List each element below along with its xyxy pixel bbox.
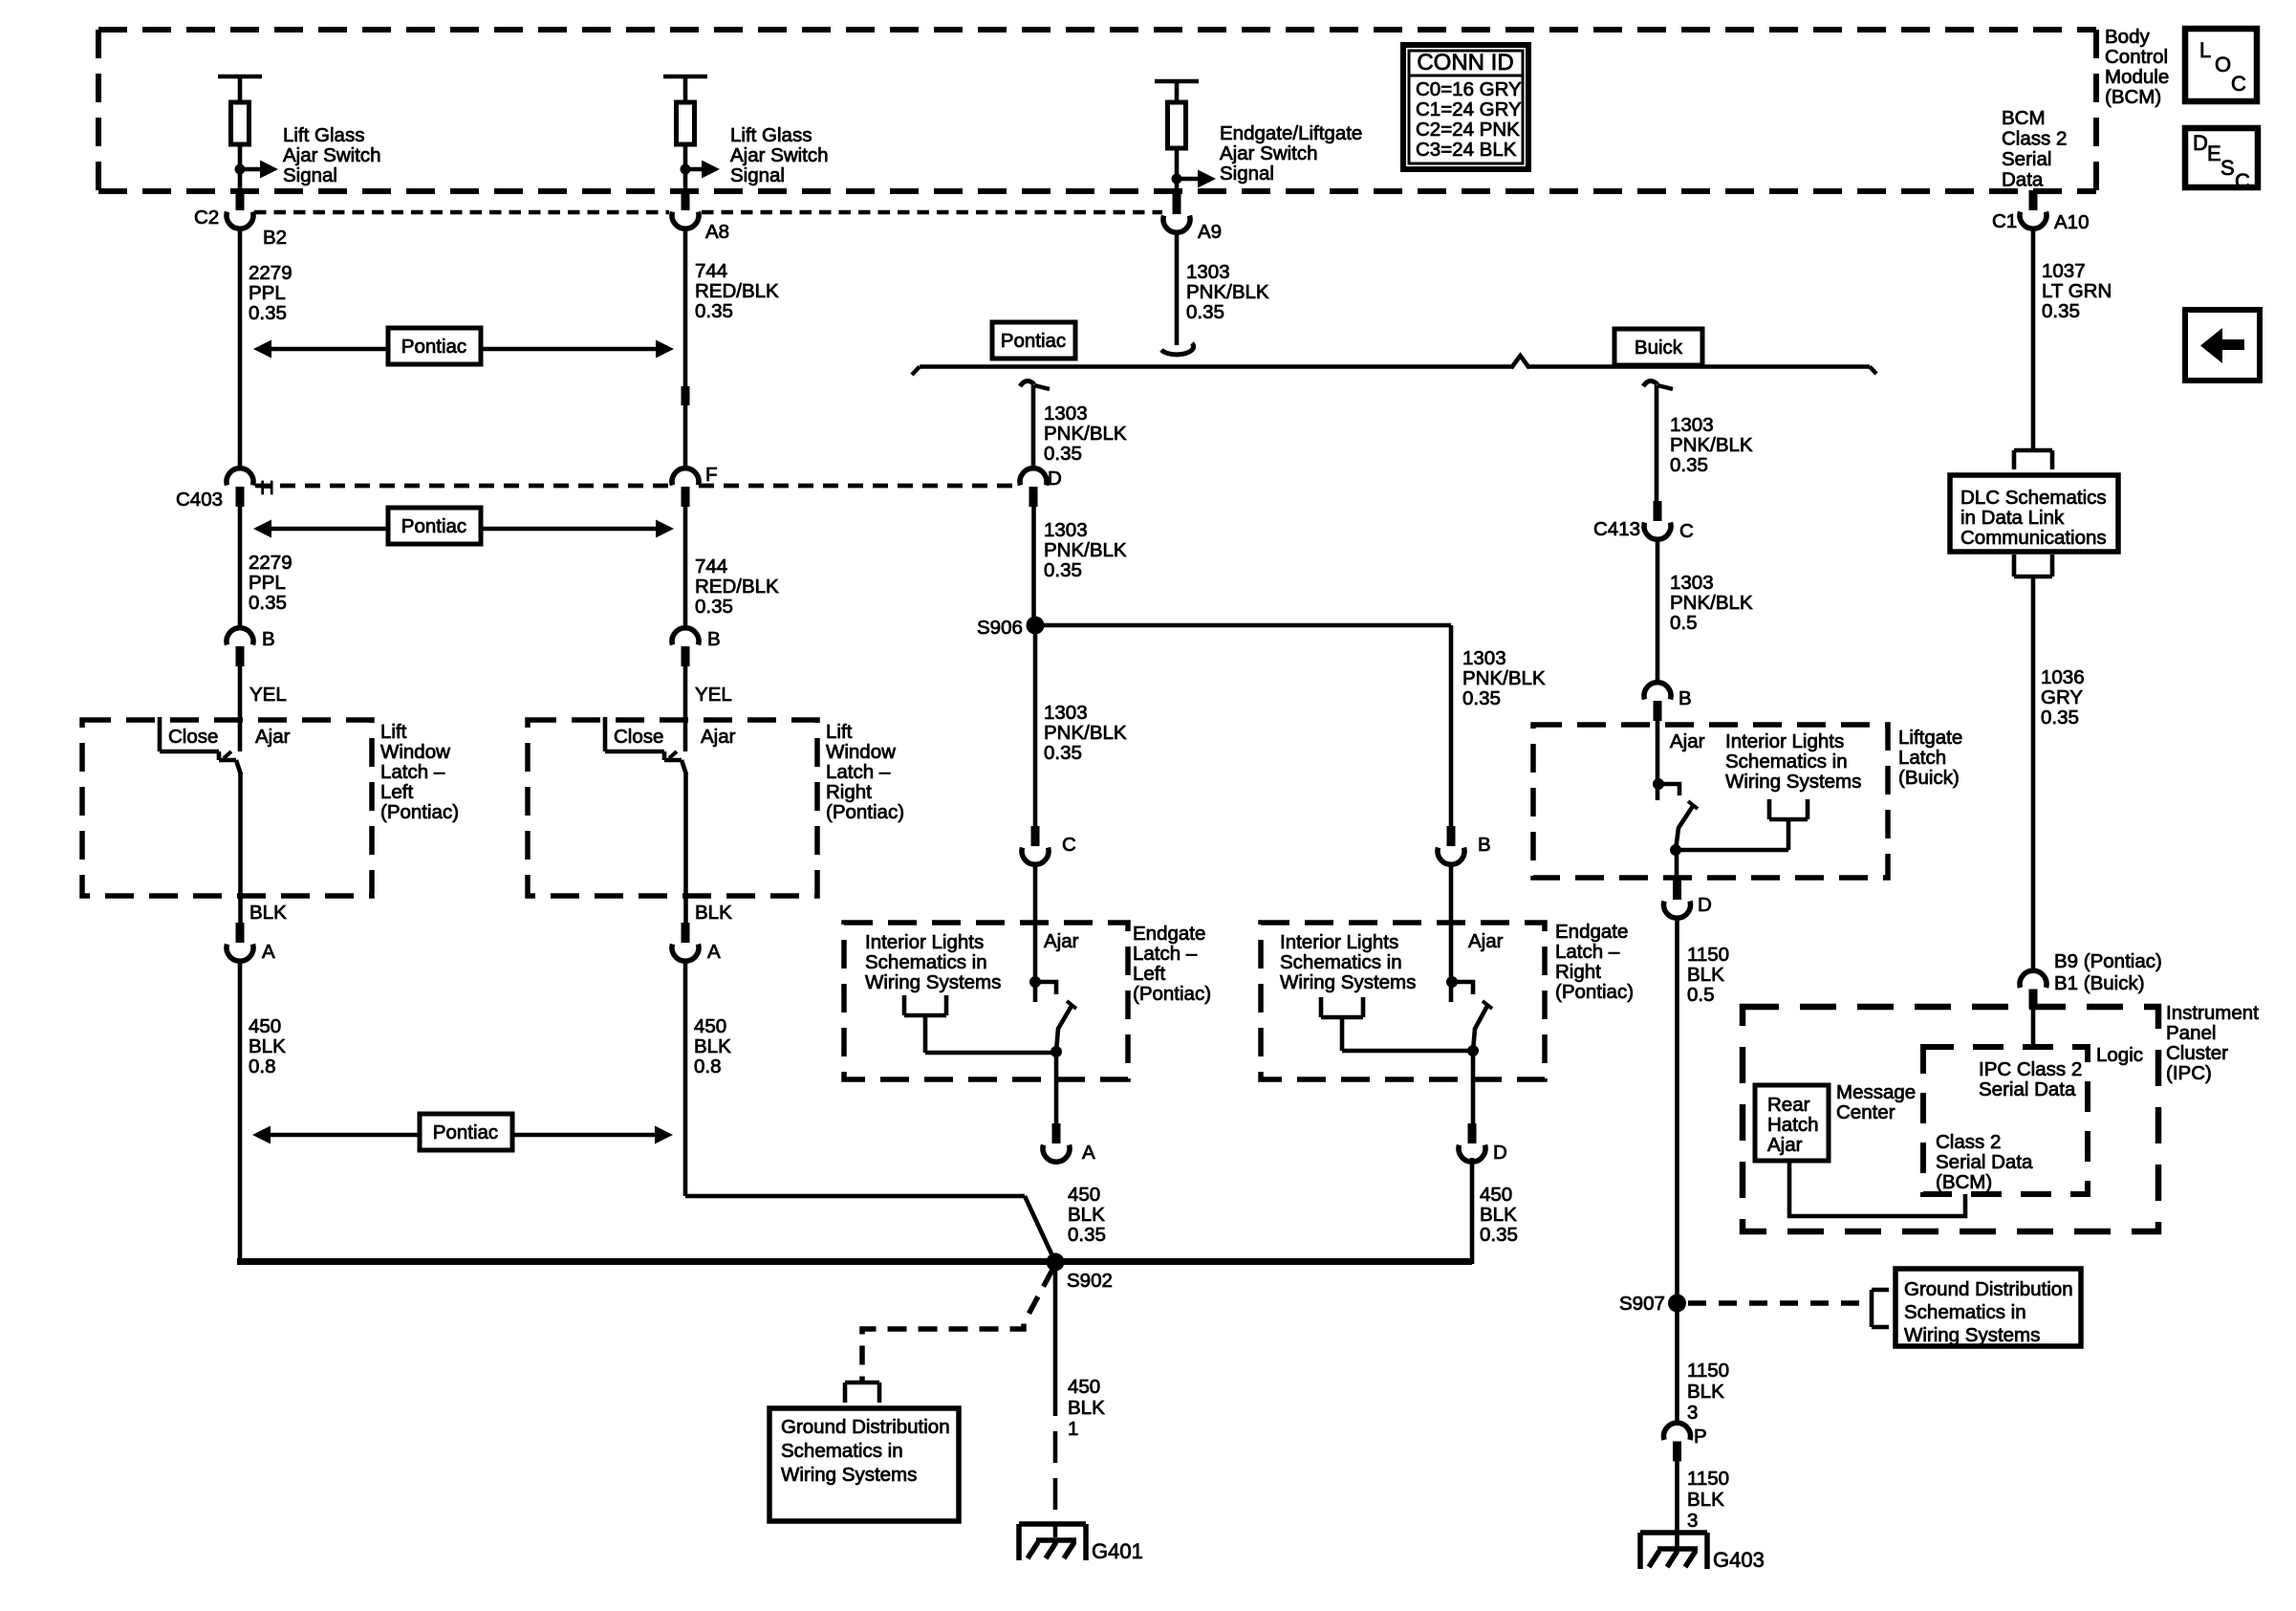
svg-text:G403: G403: [1713, 1548, 1765, 1572]
svg-text:C1: C1: [1992, 210, 2017, 232]
svg-text:BLK: BLK: [1687, 964, 1724, 986]
label Lift Glass Ajar Switch Signal (right): [730, 124, 829, 186]
svg-text:C: C: [2231, 72, 2246, 96]
label C413: [1593, 518, 1640, 540]
endgate left interior lights bracket: [904, 995, 1056, 1053]
svg-text:2279: 2279: [249, 262, 292, 284]
connector pin D (endgate right): [1459, 1123, 1485, 1162]
svg-text:P: P: [1694, 1426, 1707, 1448]
label 450 BLK 0.8 (left): [249, 1015, 286, 1078]
label 1303 PNK/BLK 0.5: [1670, 572, 1753, 634]
ground bus wire into S902: [237, 1258, 1472, 1265]
svg-text:C2=24 PNK: C2=24 PNK: [1416, 119, 1520, 141]
svg-text:RED/BLK: RED/BLK: [695, 576, 779, 598]
splice S906: [1027, 617, 1045, 635]
svg-text:1150: 1150: [1687, 944, 1729, 966]
svg-text:CONN ID: CONN ID: [1417, 50, 1513, 76]
connector plane line C2/A8/A9 (dotted): [254, 210, 1162, 215]
svg-text:0.8: 0.8: [249, 1056, 276, 1078]
DESC reference box: [2185, 128, 2258, 193]
Lift Window Latch - Left dashed box: [82, 720, 372, 896]
svg-text:O: O: [2215, 53, 2231, 76]
svg-text:Pontiac: Pontiac: [401, 515, 466, 537]
svg-text:Ground Distribution: Ground Distribution: [1904, 1278, 2073, 1300]
svg-text:Cluster: Cluster: [2166, 1042, 2228, 1064]
connector C403 pin F: [672, 468, 699, 507]
svg-text:A10: A10: [2054, 211, 2089, 233]
S902 dashed reference to ground distribution: [862, 1270, 1052, 1381]
svg-text:B2: B2: [263, 227, 287, 249]
label BLK (left): [249, 902, 287, 924]
label 1303 PNK/BLK 0.35 (liftgate): [1670, 414, 1753, 476]
svg-text:Wiring Systems: Wiring Systems: [865, 971, 1001, 993]
label A (right latch): [707, 941, 721, 963]
svg-text:1303: 1303: [1044, 519, 1088, 541]
endgate right switch fixed contact: [1446, 865, 1473, 1002]
svg-text:PNK/BLK: PNK/BLK: [1670, 592, 1753, 614]
label Message Center: [1836, 1081, 1916, 1123]
svg-text:Ajar Switch: Ajar Switch: [1220, 142, 1318, 164]
endgate branch start hook: [1020, 381, 1050, 389]
endgate right switch pivot: [1467, 1045, 1479, 1056]
label B (endgate right): [1478, 834, 1491, 856]
svg-text:Signal: Signal: [1220, 163, 1274, 185]
svg-text:Serial Data: Serial Data: [1979, 1078, 2076, 1100]
svg-text:1303: 1303: [1462, 647, 1506, 669]
label S902: [1067, 1270, 1113, 1292]
label IPC Class 2 Serial Data: [1979, 1058, 2082, 1100]
svg-text:C: C: [1062, 834, 1076, 856]
wire 1036 GRY: [2031, 577, 2036, 970]
svg-text:Ajar: Ajar: [1767, 1134, 1803, 1156]
label A9: [1198, 221, 1222, 243]
label D (C403): [1048, 468, 1062, 490]
svg-text:Pontiac: Pontiac: [433, 1121, 498, 1143]
svg-text:LT GRN: LT GRN: [2042, 280, 2112, 302]
connector pin P: [1664, 1423, 1691, 1461]
svg-text:1303: 1303: [1186, 261, 1230, 283]
label 1303 PNK/BLK 0.35 (S906 right leg): [1462, 647, 1546, 709]
label Lift Window Latch - Right (Pontiac): [826, 721, 904, 823]
svg-text:C: C: [1679, 520, 1694, 542]
svg-text:450: 450: [1480, 1184, 1512, 1206]
svg-text:Liftgate: Liftgate: [1898, 727, 1962, 749]
wire 1037 LT GRN: [2031, 229, 2036, 450]
endgate right interior lights bracket: [1321, 997, 1473, 1051]
svg-text:1037: 1037: [2042, 260, 2086, 282]
svg-text:IPC Class 2: IPC Class 2: [1979, 1058, 2082, 1080]
label Endgate/Liftgate Ajar Switch Signal: [1220, 122, 1362, 185]
svg-text:1303: 1303: [1670, 572, 1714, 594]
resistor (lift glass ajar switch signal pull-up, right): [663, 76, 707, 191]
svg-text:Wiring Systems: Wiring Systems: [1904, 1324, 2040, 1346]
connector pin A9: [1163, 194, 1190, 232]
label Ajar (endgate right): [1468, 930, 1504, 952]
connector pin B (right latch): [672, 628, 699, 666]
label Class 2 Serial Data (BCM): [1936, 1131, 2033, 1193]
svg-text:C0=16 GRY: C0=16 GRY: [1416, 78, 1522, 100]
label B9 (Pontiac): [2054, 950, 2162, 972]
Pontiac row A left arrow: [253, 340, 388, 359]
svg-text:Schematics in: Schematics in: [781, 1440, 903, 1462]
svg-text:D: D: [1698, 894, 1712, 916]
svg-text:Lift Glass: Lift Glass: [283, 124, 364, 146]
DLC Schematics box: [1950, 475, 2118, 552]
svg-text:PNK/BLK: PNK/BLK: [1044, 722, 1127, 744]
svg-text:Schematics in: Schematics in: [1725, 751, 1848, 773]
wire 1150 BLK 3 (lower): [1675, 1460, 1679, 1549]
label Ajar (left latch): [255, 726, 291, 748]
svg-text:Body: Body: [2105, 26, 2150, 48]
splice S907: [1668, 1295, 1686, 1313]
svg-text:Panel: Panel: [2166, 1022, 2216, 1044]
Buick label box (liftgate run): [1614, 329, 1702, 365]
svg-text:(BCM): (BCM): [2105, 86, 2161, 108]
wire S902 right to endgate right D: [1470, 1158, 1475, 1264]
svg-text:450: 450: [1068, 1376, 1100, 1398]
wire W2 to S902: [685, 1196, 1055, 1262]
label A8: [705, 221, 729, 243]
svg-text:C2: C2: [194, 207, 219, 229]
label S907: [1619, 1293, 1665, 1315]
svg-text:Interior Lights: Interior Lights: [865, 931, 984, 953]
wire liftgate latch to D: [1675, 850, 1679, 892]
connector plane line C403 (dashed): [255, 484, 1020, 489]
svg-text:0.5: 0.5: [1670, 612, 1698, 634]
Endgate Latch - Left dashed box: [844, 923, 1128, 1079]
label B1 (Buick): [2054, 972, 2145, 994]
svg-text:Signal: Signal: [283, 164, 337, 186]
label 2279 PPL 0.35 (lower): [249, 552, 292, 614]
label Interior Lights Schematics (endgate right): [1280, 931, 1416, 993]
label 450 BLK 0.8 (right): [694, 1015, 731, 1078]
svg-text:Close: Close: [614, 726, 663, 748]
label 744 RED/BLK 0.35 (upper): [695, 260, 779, 322]
S907 dashed reference line: [1688, 1300, 1862, 1306]
svg-text:B: B: [707, 628, 721, 650]
svg-text:Latch –: Latch –: [826, 761, 891, 783]
svg-text:Endgate: Endgate: [1555, 921, 1628, 943]
label C1: [1992, 210, 2017, 232]
svg-text:Latch –: Latch –: [1133, 943, 1198, 965]
label YEL (left): [249, 684, 287, 706]
svg-text:PNK/BLK: PNK/BLK: [1186, 281, 1269, 303]
label G403: [1713, 1548, 1765, 1572]
label 450 BLK 1: [1068, 1376, 1105, 1440]
svg-text:1303: 1303: [1670, 414, 1714, 436]
connector C2 pin B2 (left wire): [227, 190, 253, 229]
svg-text:C1=24 GRY: C1=24 GRY: [1416, 98, 1522, 120]
endgate left switch fixed contact: [1029, 865, 1056, 1002]
label 1303 PNK/BLK 0.35 (S906 left leg): [1044, 702, 1127, 764]
wire 1303 PNK/BLK 0.5: [1656, 540, 1660, 682]
label C (endgate left): [1062, 834, 1076, 856]
svg-text:C3=24 BLK: C3=24 BLK: [1416, 139, 1517, 161]
svg-text:RED/BLK: RED/BLK: [695, 280, 779, 302]
svg-text:744: 744: [695, 260, 727, 282]
connector C413 pin C: [1644, 501, 1671, 539]
svg-text:Control: Control: [2105, 46, 2168, 68]
svg-text:Buick: Buick: [1635, 337, 1683, 359]
label Ajar (right latch): [701, 726, 736, 748]
svg-text:1: 1: [1068, 1418, 1078, 1440]
connector pin B (liftgate latch): [1644, 683, 1671, 721]
label YEL (right): [695, 684, 732, 706]
svg-text:D: D: [1048, 468, 1062, 490]
svg-text:Lift Glass: Lift Glass: [730, 124, 812, 146]
svg-text:Signal: Signal: [730, 164, 785, 186]
label 450 BLK 0.35 (right): [1480, 1184, 1518, 1246]
svg-text:G401: G401: [1092, 1539, 1143, 1563]
label 1303 PNK/BLK 0.35 (below D): [1044, 519, 1127, 581]
svg-text:B1 (Buick): B1 (Buick): [2054, 972, 2145, 994]
label D (liftgate latch): [1698, 894, 1712, 916]
wire 1303 PNK/BLK (D to S906): [1031, 506, 1036, 625]
svg-text:B: B: [1478, 834, 1491, 856]
label A10: [2054, 211, 2089, 233]
svg-text:(Pontiac): (Pontiac): [1555, 981, 1634, 1003]
LOC reference box: [2185, 29, 2257, 101]
signal arrow - Endgate/Liftgate Ajar Switch Signal: [1172, 170, 1217, 188]
svg-text:C: C: [2235, 169, 2250, 193]
svg-text:A: A: [262, 941, 275, 963]
svg-text:0.35: 0.35: [1186, 301, 1224, 323]
svg-text:Interior Lights: Interior Lights: [1280, 931, 1398, 953]
Pontiac row A right arrow: [481, 340, 674, 359]
svg-text:Ajar: Ajar: [1468, 930, 1504, 952]
Pontiac row B left arrow: [253, 520, 388, 538]
svg-text:Schematics in: Schematics in: [865, 951, 987, 973]
wire 1303 PNK/BLK from A9 with end hook: [1161, 233, 1194, 355]
svg-text:Ajar: Ajar: [255, 726, 291, 748]
svg-text:B: B: [262, 628, 275, 650]
svg-text:450: 450: [694, 1015, 726, 1037]
svg-text:B: B: [1679, 687, 1692, 709]
svg-text:BLK: BLK: [1687, 1381, 1724, 1403]
svg-text:(Pontiac): (Pontiac): [380, 801, 459, 823]
svg-text:0.35: 0.35: [249, 302, 287, 324]
label 1037 LT GRN 0.35: [2042, 260, 2112, 322]
label B (left latch): [262, 628, 275, 650]
svg-text:Lift: Lift: [826, 721, 853, 743]
svg-text:S: S: [2220, 156, 2235, 180]
label Liftgate Latch (Buick): [1898, 727, 1962, 789]
label A (left latch): [262, 941, 275, 963]
svg-text:S902: S902: [1067, 1270, 1113, 1292]
svg-text:0.35: 0.35: [2041, 707, 2079, 729]
svg-text:PPL: PPL: [249, 282, 286, 304]
svg-text:0.35: 0.35: [1044, 443, 1082, 465]
svg-text:Hatch: Hatch: [1767, 1114, 1819, 1136]
label G401: [1092, 1539, 1143, 1563]
label 1150 BLK 3 (upper): [1687, 1360, 1729, 1424]
svg-text:C403: C403: [176, 489, 223, 511]
label Endgate Latch - Right (Pontiac): [1555, 921, 1634, 1003]
svg-text:Instrument: Instrument: [2166, 1002, 2259, 1024]
label 1150 BLK 3 (lower): [1687, 1468, 1729, 1532]
svg-text:A: A: [707, 941, 721, 963]
svg-text:F: F: [705, 464, 718, 486]
svg-text:0.35: 0.35: [1044, 742, 1082, 764]
Lift Window Latch - Right dashed box: [528, 720, 817, 896]
wire BLK (right): [683, 773, 688, 928]
endgate right switch lever: [1473, 1001, 1492, 1051]
svg-text:L: L: [2199, 38, 2211, 62]
signal arrow - Lift Glass Ajar Switch Signal right: [681, 161, 721, 179]
connector pin C (endgate latch left): [1022, 826, 1049, 864]
CONN ID table: [1403, 45, 1528, 169]
svg-text:Communications: Communications: [1960, 527, 2107, 549]
wire YEL (right): [683, 665, 688, 751]
svg-text:Left: Left: [1133, 963, 1165, 985]
svg-text:Schematics in: Schematics in: [1904, 1301, 2026, 1323]
svg-text:Latch: Latch: [1898, 747, 1946, 769]
svg-text:0.35: 0.35: [249, 592, 287, 614]
svg-text:E: E: [2207, 142, 2221, 165]
wire BLK (left): [238, 773, 243, 928]
connector pin B (left latch): [227, 628, 253, 666]
label F: [705, 464, 718, 486]
svg-text:Left: Left: [380, 781, 413, 803]
svg-text:YEL: YEL: [695, 684, 732, 706]
svg-text:BLK: BLK: [249, 1035, 286, 1057]
label 1303 PNK/BLK 0.35 (A9): [1186, 261, 1269, 323]
wire S906 to left endgate latch: [1033, 625, 1038, 831]
svg-text:Serial Data: Serial Data: [1936, 1151, 2033, 1173]
connector C403 pin D (endgate run): [1020, 468, 1047, 507]
svg-text:in Data Link: in Data Link: [1960, 507, 2065, 529]
svg-text:Class 2: Class 2: [1936, 1131, 2001, 1153]
switch close contact flag (left latch): [160, 717, 236, 760]
connector pin B (endgate latch right): [1438, 826, 1464, 864]
wire YEL (left): [238, 665, 243, 751]
Ground Distribution box (left): [769, 1408, 959, 1521]
Pontiac label box (endgate run): [992, 322, 1075, 359]
wire 744 RED/BLK lower segment: [683, 506, 688, 627]
wire 1150 BLK 0.5: [1675, 919, 1679, 1303]
svg-text:Ajar: Ajar: [1044, 930, 1079, 952]
label Ajar (liftgate): [1670, 730, 1705, 752]
Endgate Latch - Right dashed box: [1261, 923, 1545, 1079]
svg-text:Right: Right: [826, 781, 872, 803]
connector pin A (endgate left): [1043, 1123, 1070, 1162]
connector pin D (liftgate latch): [1664, 880, 1691, 918]
svg-text:1150: 1150: [1687, 1360, 1729, 1382]
endgate left switch pivot: [1051, 1046, 1062, 1057]
svg-text:S906: S906: [977, 617, 1023, 639]
svg-text:H: H: [260, 477, 274, 499]
wire into IPC logic: [2031, 1009, 2036, 1048]
splice S902: [1047, 1253, 1065, 1272]
svg-text:450: 450: [249, 1015, 281, 1037]
label A (endgate left): [1082, 1142, 1095, 1164]
label BLK (right): [695, 902, 732, 924]
Rear Hatch Ajar box: [1755, 1085, 1829, 1161]
wire Rear Hatch Ajar to Class 2 Serial Data: [1789, 1161, 1965, 1216]
Ground Distribution box (right): [1895, 1269, 2081, 1346]
svg-text:2279: 2279: [249, 552, 292, 574]
switch close contact flag (right latch): [605, 717, 682, 760]
connector pin A8: [672, 190, 699, 229]
ground G401: [1019, 1524, 1086, 1560]
wire 450 BLK 0.8 (left): [238, 962, 243, 1264]
svg-text:Wiring Systems: Wiring Systems: [781, 1464, 917, 1486]
label 1303 PNK/BLK 0.35 (above D): [1044, 403, 1127, 465]
svg-text:Window: Window: [826, 741, 896, 763]
label Interior Lights Schematics (liftgate): [1725, 730, 1861, 793]
svg-text:Ajar: Ajar: [1670, 730, 1705, 752]
svg-text:Center: Center: [1836, 1101, 1895, 1123]
label 2279 PPL 0.35 (upper): [249, 262, 292, 324]
svg-text:YEL: YEL: [249, 684, 287, 706]
svg-text:450: 450: [1068, 1184, 1100, 1206]
svg-text:3: 3: [1687, 1402, 1698, 1424]
svg-text:B9 (Pontiac): B9 (Pontiac): [2054, 950, 2162, 972]
switch lever (left latch): [236, 760, 241, 774]
svg-text:Class 2: Class 2: [2002, 127, 2067, 149]
svg-text:BLK: BLK: [1480, 1204, 1517, 1226]
harness continuation line with brace: [912, 356, 1876, 375]
Pontiac row B right arrow: [481, 520, 674, 538]
svg-text:744: 744: [695, 555, 727, 577]
wire 1303 PNK/BLK (liftgate branch): [1655, 385, 1659, 513]
DLC reference bracket top: [2014, 450, 2052, 469]
wire 450 BLK 0.8 (right): [683, 962, 688, 1196]
DLC reference bracket bottom: [2014, 555, 2052, 577]
svg-text:Lift: Lift: [380, 721, 407, 743]
svg-text:BCM: BCM: [2002, 107, 2046, 129]
liftgate switch lever: [1676, 801, 1698, 850]
svg-text:0.8: 0.8: [694, 1056, 722, 1078]
label 744 RED/BLK 0.35 (lower): [695, 555, 779, 618]
svg-text:Data: Data: [2002, 168, 2044, 190]
wire 2279 PPL lower segment: [238, 506, 243, 627]
svg-text:0.35: 0.35: [1462, 687, 1501, 709]
label B (liftgate latch): [1679, 687, 1692, 709]
connector C403 pin H: [227, 468, 253, 507]
svg-text:PPL: PPL: [249, 572, 286, 594]
wire 450 BLK 1 solid part: [1053, 1271, 1058, 1384]
svg-text:Latch –: Latch –: [380, 761, 445, 783]
svg-text:Window: Window: [380, 741, 450, 763]
wire 1303 PNK/BLK (endgate branch upper): [1031, 385, 1036, 468]
Instrument Panel Cluster dashed box: [1743, 1007, 2158, 1231]
svg-text:PNK/BLK: PNK/BLK: [1462, 667, 1546, 689]
label Logic: [2096, 1044, 2143, 1066]
svg-text:0.35: 0.35: [1480, 1224, 1518, 1246]
label B2: [263, 227, 287, 249]
svg-text:Right: Right: [1555, 961, 1601, 983]
endgate left switch lever: [1056, 1001, 1076, 1052]
label 1150 BLK 0.5: [1687, 944, 1729, 1006]
signal arrow - Lift Glass Ajar Switch Signal left: [235, 161, 279, 179]
svg-text:BLK: BLK: [249, 902, 287, 924]
wire 2279 PPL upper segment: [238, 229, 243, 468]
resistor (lift glass ajar switch signal pull-up, left): [218, 76, 262, 191]
svg-text:0.35: 0.35: [695, 596, 733, 618]
connector pin A (left latch): [227, 923, 253, 961]
label Lift Window Latch - Left (Pontiac): [380, 721, 459, 823]
svg-text:A8: A8: [705, 221, 729, 243]
svg-text:C413: C413: [1593, 518, 1640, 540]
label Ajar (endgate left): [1044, 930, 1079, 952]
connector pin B9/B1 (IPC): [2020, 970, 2047, 1009]
svg-text:Interior Lights: Interior Lights: [1725, 730, 1844, 752]
svg-text:0.35: 0.35: [2042, 300, 2080, 322]
svg-text:Pontiac: Pontiac: [401, 336, 466, 358]
Pontiac band box (row A): [388, 328, 481, 364]
svg-text:1303: 1303: [1044, 702, 1088, 724]
